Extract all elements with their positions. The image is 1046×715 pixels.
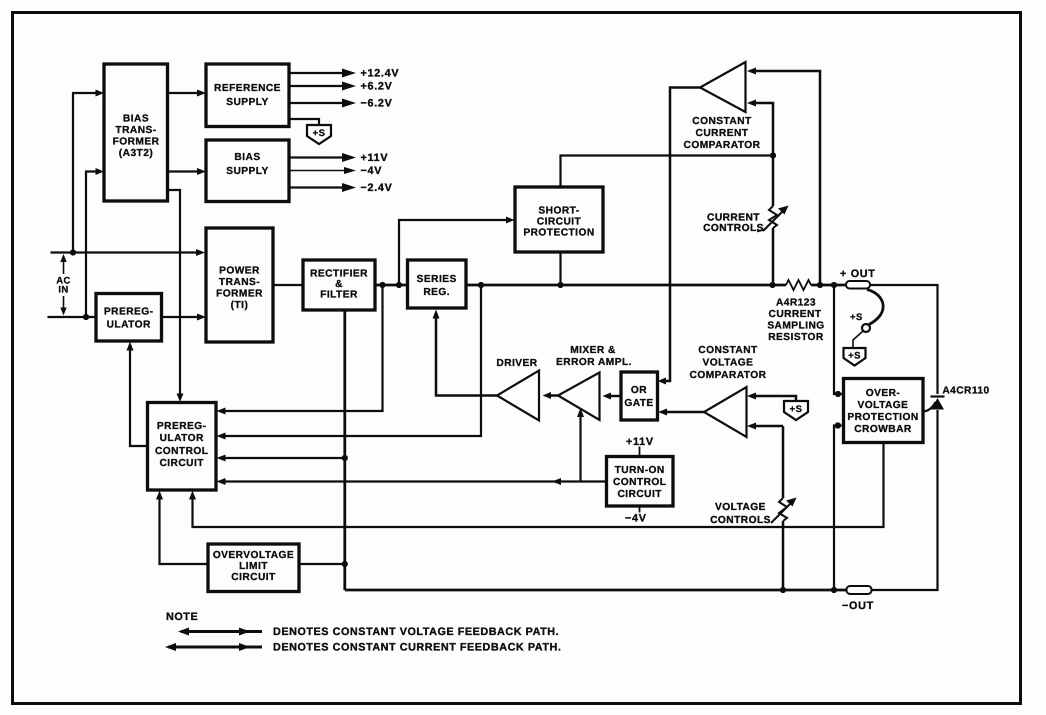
svg-text:−4V: −4V (625, 513, 647, 525)
op-amp CONSTANT VOLTAGE COMPARATOR (690, 345, 767, 437)
svg-text:VOLTAGE: VOLTAGE (715, 502, 766, 513)
svg-text:VOLTAGE: VOLTAGE (703, 358, 754, 369)
svg-text:IN: IN (58, 285, 68, 296)
svg-text:DRIVER: DRIVER (496, 358, 537, 369)
wire +OUT bus to right rail (870, 285, 938, 394)
svg-text:PROTECTION: PROTECTION (523, 228, 594, 239)
svg-text:&: & (335, 279, 343, 290)
svg-text:CONTROLS: CONTROLS (710, 515, 771, 526)
svg-text:PREREG-: PREREG- (157, 421, 207, 432)
svg-text:SUPPLY: SUPPLY (226, 97, 269, 108)
wire preregulator to power transformer (162, 314, 207, 321)
svg-text:OR: OR (631, 385, 647, 396)
svg-text:REG.: REG. (423, 287, 450, 298)
wire voltage comparator lower input from voltage controls (747, 423, 783, 430)
svg-text:TURN-ON: TURN-ON (615, 465, 665, 476)
wire AC input lower line (48, 314, 97, 320)
wire bias transformer to bias supply (168, 168, 207, 175)
svg-text:CONTROL: CONTROL (155, 446, 209, 457)
block PREREGULATOR (96, 294, 162, 342)
svg-text:+S: +S (850, 312, 863, 323)
wire voltage comparator output to OR gate (658, 409, 704, 416)
svg-text:CROWBAR: CROWBAR (854, 424, 912, 435)
wire AC input upper line (51, 249, 206, 256)
svg-text:POWER: POWER (219, 266, 260, 277)
block RECTIFIER &amp; FILTER (303, 260, 375, 310)
op-amp CONSTANT CURRENT COMPARATOR (684, 62, 761, 151)
wire main output bus series reg to sampling resistor (466, 282, 786, 288)
svg-text:REFERENCE: REFERENCE (214, 83, 281, 94)
wire control circuit input 1 from bus (217, 285, 383, 415)
terminal -OUT (842, 586, 874, 612)
svg-text:SERIES: SERIES (417, 274, 457, 285)
svg-text:CIRCUIT: CIRCUIT (617, 489, 662, 500)
block BIAS SUPPLY (206, 140, 289, 202)
svg-text:+S: +S (313, 128, 326, 139)
svg-text:MIXER &: MIXER & (570, 345, 616, 356)
resistor A4R123 current sampling resistor (786, 280, 845, 290)
node AC IN label with dashed arrows (56, 254, 71, 316)
svg-text:CIRCUIT: CIRCUIT (159, 458, 204, 469)
svg-text:SHORT-: SHORT- (538, 206, 579, 217)
wire current comparator upper input from +OUT rail (747, 68, 820, 286)
block OVER-VOLTAGE PROTECTION CROWBAR (844, 379, 924, 443)
svg-text:+S: +S (848, 351, 861, 362)
LEGEND (165, 611, 561, 654)
svg-text:ULATOR: ULATOR (160, 433, 204, 444)
wire main output bus rectifier to series reg (375, 282, 408, 288)
wire short circuit feed from bus (399, 217, 515, 286)
wire voltage comparator upper input from +S badge (747, 393, 796, 402)
svg-text:LIMIT: LIMIT (239, 561, 268, 572)
wire branch up into mixer (577, 408, 584, 482)
svg-text:CONTROL: CONTROL (613, 477, 667, 488)
svg-text:+12.4V: +12.4V (361, 68, 400, 80)
wire bias supply output -2.4V (289, 182, 393, 194)
wire current comparator lower input (747, 100, 773, 156)
svg-text:CONSTANT: CONSTANT (698, 345, 758, 356)
wire -OUT to right rail (872, 410, 938, 590)
block OR GATE (621, 372, 658, 420)
svg-text:−OUT: −OUT (842, 600, 874, 612)
svg-text:+11V: +11V (361, 152, 389, 164)
rheostat VOLTAGE CONTROLS (771, 426, 797, 590)
terminal +S badge (reference) (307, 125, 331, 144)
wire overvoltage limit right to rectifier drop (299, 563, 345, 565)
block SHORT-CIRCUIT PROTECTION (515, 187, 603, 252)
wire reference supply output +12.4V (289, 68, 399, 80)
wire -OUT bus (345, 587, 847, 593)
svg-text:RECTIFIER: RECTIFIER (310, 269, 368, 280)
terminal +S badge (voltage comparator) (784, 401, 808, 420)
svg-text:VOLTAGE: VOLTAGE (858, 400, 909, 411)
wire short circuit top feedback line (561, 152, 777, 187)
svg-text:BIAS: BIAS (123, 114, 149, 125)
wire reference supply output -6.2V (289, 98, 393, 110)
svg-text:−6.2V: −6.2V (361, 98, 393, 110)
wire mixer to driver (543, 392, 559, 399)
legend constant current feedback path symbol (165, 642, 561, 654)
text NOTE (166, 611, 198, 623)
svg-text:NOTE: NOTE (166, 611, 198, 623)
wire bias supply output -4V (289, 165, 382, 177)
svg-text:GATE: GATE (624, 398, 653, 409)
svg-text:FORMER: FORMER (113, 137, 160, 148)
wire AC tap to bias transformer lower input (86, 168, 104, 317)
svg-text:A4CR110: A4CR110 (942, 386, 989, 397)
wire control circuit input 3 from rectifier drop (217, 455, 348, 462)
wire current comparator output down to OR gate (658, 88, 701, 385)
text A4R123 CURRENT SAMPLING RESISTOR (767, 298, 824, 344)
svg-text:(A3T2): (A3T2) (119, 148, 153, 159)
svg-text:DENOTES CONSTANT VOLTAGE FEEDB: DENOTES CONSTANT VOLTAGE FEEDBACK PATH. (273, 626, 559, 638)
wire +OUT sense jumper arc (850, 290, 883, 348)
wire short circuit bottom to bus (559, 252, 561, 285)
svg-text:FILTER: FILTER (320, 290, 358, 301)
svg-text:CIRCUIT: CIRCUIT (231, 572, 276, 583)
block PREREGULATOR CONTROL CIRCUIT (148, 403, 217, 491)
BLOCKS (96, 62, 923, 592)
wire bias transformer bottom to preregulator control circuit (168, 190, 184, 402)
svg-text:TRANS-: TRANS- (219, 277, 260, 288)
wire AC tap to bias transformer upper input (73, 90, 104, 253)
svg-text:(TI): (TI) (231, 300, 249, 311)
svg-text:−2.4V: −2.4V (361, 182, 393, 194)
wire bias supply output +11V (289, 152, 388, 164)
terminal +OUT (840, 268, 876, 289)
block REFERENCE SUPPLY (206, 64, 289, 127)
svg-text:CURRENT: CURRENT (769, 309, 822, 320)
op-amp DRIVER (496, 358, 539, 421)
block OVERVOLTAGE LIMIT CIRCUIT (208, 544, 299, 592)
block POWER TRANSFORMER (TI) (206, 228, 273, 342)
svg-text:SAMPLING: SAMPLING (767, 321, 824, 332)
rheostat CURRENT CONTROLS (757, 156, 789, 286)
svg-text:DENOTES CONSTANT CURRENT FEEDB: DENOTES CONSTANT CURRENT FEEDBACK PATH. (273, 642, 561, 654)
svg-text:+S: +S (790, 404, 803, 415)
wire OR gate to mixer (603, 393, 622, 400)
text VOLTAGE CONTROLS (710, 502, 771, 526)
svg-text:CONTROLS: CONTROLS (703, 223, 764, 234)
legend constant voltage feedback path symbol (178, 626, 559, 638)
wire +11V stub into turn-on control (626, 436, 654, 457)
terminal +S badge (output sense) (844, 348, 866, 366)
wire crowbar bottom feedback to control circuit (189, 443, 884, 528)
svg-text:+11V: +11V (626, 436, 654, 448)
wire preregulator AC feed arrow into preregulator (86, 316, 92, 318)
svg-text:CONSTANT: CONSTANT (692, 116, 752, 127)
diode A4CR110 (923, 386, 990, 412)
svg-text:PROTECTION: PROTECTION (847, 412, 918, 423)
block BIAS TRANSFORMER (A3T2) (104, 64, 168, 201)
wire crowbar lower-left from -OUT bus (834, 422, 844, 590)
svg-text:CURRENT: CURRENT (707, 213, 760, 224)
svg-text:OVERVOLTAGE: OVERVOLTAGE (213, 550, 294, 561)
svg-text:+ OUT: + OUT (840, 268, 876, 280)
svg-text:OVER-: OVER- (866, 388, 901, 399)
wire reference supply to +S badge (289, 119, 319, 125)
wire turn-on control output line (217, 478, 607, 485)
block SERIES REG. (408, 260, 467, 308)
svg-text:PREREG-: PREREG- (104, 307, 154, 318)
wire overvoltage limit to control circuit bottom (156, 491, 208, 565)
svg-text:CURRENT: CURRENT (696, 128, 749, 139)
op-amp MIXER &amp; ERROR AMPL. (556, 345, 632, 420)
svg-text:TRANS-: TRANS- (115, 125, 156, 136)
svg-text:ERROR AMPL.: ERROR AMPL. (556, 357, 632, 368)
wire power transformer to rectifier (273, 284, 303, 286)
svg-text:−4V: −4V (361, 165, 383, 177)
block TURN-ON CONTROL CIRCUIT (607, 457, 674, 507)
svg-text:A4R123: A4R123 (776, 298, 816, 309)
svg-text:BIAS: BIAS (234, 152, 260, 163)
svg-text:FORMER: FORMER (216, 289, 263, 300)
wire crowbar upper-left from +OUT bus (834, 285, 844, 397)
wire control circuit input 2 from bus (217, 285, 482, 440)
svg-text:CIRCUIT: CIRCUIT (537, 217, 582, 228)
svg-text:+6.2V: +6.2V (361, 81, 393, 93)
svg-text:COMPARATOR: COMPARATOR (684, 140, 761, 151)
svg-text:SUPPLY: SUPPLY (226, 166, 269, 177)
wire bias transformer to reference supply (168, 90, 207, 97)
wire rectifier bottom drop to -OUT bus (342, 310, 348, 590)
wire -4V stub below turn-on control (625, 506, 647, 525)
wire reference supply output +6.2V (289, 81, 393, 93)
svg-text:RESISTOR: RESISTOR (768, 332, 824, 343)
wire driver output to series regulator (433, 310, 498, 396)
svg-text:COMPARATOR: COMPARATOR (690, 370, 767, 381)
wire control circuit left loop to preregulator (127, 342, 148, 447)
text CURRENT CONTROLS (703, 213, 764, 235)
svg-text:ULATOR: ULATOR (107, 320, 151, 331)
